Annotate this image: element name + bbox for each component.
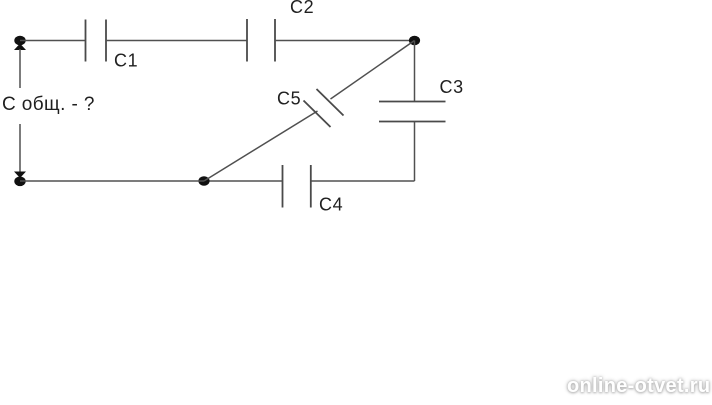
terminal T1 (top-left)	[14, 36, 26, 50]
wire (top, C1 to C2)	[106, 40, 247, 42]
wire (diagonal, C5 to N1)	[331, 41, 415, 100]
capacitor C4	[283, 165, 311, 208]
svg-text:C1: C1	[114, 51, 138, 71]
node N2 (bottom junction)	[198, 176, 209, 185]
wire (bottom, T2 to node N2)	[20, 180, 204, 182]
wire (right vertical, C3 to bottom)	[414, 122, 416, 182]
wire (top, dot to C1)	[20, 40, 86, 42]
capacitor C3	[379, 102, 446, 122]
svg-text:C5: C5	[277, 89, 301, 109]
wire (right vertical, N1 to C3)	[414, 41, 416, 102]
svg-text:С общ. - ?: С общ. - ?	[2, 94, 95, 115]
wire (bottom, node N2 to C4)	[204, 180, 283, 182]
node N1 (top-right junction)	[409, 36, 420, 45]
wire (bottom, right corner to C4)	[311, 180, 415, 182]
capacitor C2	[247, 19, 275, 62]
wire (diagonal, N2 to C5)	[204, 111, 318, 181]
terminal T2 (bottom-left)	[14, 172, 26, 187]
svg-text:C2: C2	[290, 0, 314, 17]
capacitor C1	[86, 20, 107, 62]
wire (top, C2 to node N1)	[275, 40, 415, 42]
wire (left vertical, upper segment)	[19, 49, 21, 88]
wire (left vertical, lower segment)	[19, 124, 21, 173]
svg-text:C3: C3	[440, 77, 464, 97]
svg-text:C4: C4	[319, 195, 343, 215]
capacitor C5	[304, 89, 344, 127]
